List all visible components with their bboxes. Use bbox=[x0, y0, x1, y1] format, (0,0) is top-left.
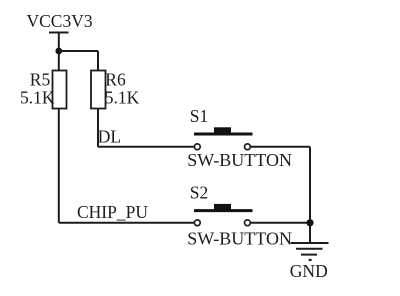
wire R6 bottom down to DL rail bbox=[97, 109, 99, 147]
svg-text:R5: R5 bbox=[30, 69, 51, 89]
wire S2 right terminal to junction bbox=[250, 222, 310, 224]
wire CHIP_PU horizontal to S2 bbox=[59, 222, 195, 224]
ground symbol bar 3 bbox=[301, 254, 317, 256]
wire R5 bottom down to CHIP_PU rail bbox=[58, 109, 60, 223]
svg-text:VCC3V3: VCC3V3 bbox=[27, 11, 93, 31]
svg-text:5.1K: 5.1K bbox=[20, 87, 55, 107]
svg-text:GND: GND bbox=[290, 261, 328, 281]
resistor R6 body bbox=[91, 71, 106, 109]
wire S1 right terminal to right rail bbox=[250, 146, 310, 148]
switch S2 right terminal pin bbox=[245, 220, 251, 226]
svg-text:SW-BUTTON: SW-BUTTON bbox=[187, 228, 292, 248]
ground symbol bar 4 bbox=[309, 259, 312, 261]
svg-text:S2: S2 bbox=[190, 183, 208, 203]
resistor R5 body bbox=[53, 71, 67, 109]
switch S1 actuator bar bbox=[194, 133, 253, 136]
switch S2 button bump bbox=[214, 204, 231, 211]
svg-text:SW-BUTTON: SW-BUTTON bbox=[187, 150, 292, 170]
svg-text:CHIP_PU: CHIP_PU bbox=[77, 202, 148, 222]
junction dot at VCC split bbox=[55, 48, 62, 55]
ground symbol bar 2 bbox=[296, 248, 323, 250]
wire down into R6 top bbox=[97, 51, 99, 71]
switch S2 left terminal pin bbox=[194, 220, 200, 226]
ground symbol bar 1 bbox=[291, 242, 329, 244]
wire junction to R6 branch horizontal bbox=[59, 50, 98, 52]
switch S2 actuator bar bbox=[194, 209, 253, 212]
switch S1 right terminal pin bbox=[245, 144, 251, 150]
switch S1 left terminal pin bbox=[194, 144, 200, 150]
svg-text:DL: DL bbox=[98, 126, 121, 146]
svg-text:R6: R6 bbox=[105, 69, 126, 89]
switch S1 button bump bbox=[214, 127, 231, 134]
wire DL horizontal to S1 bbox=[98, 146, 195, 148]
svg-text:S1: S1 bbox=[190, 106, 208, 126]
svg-text:5.1K: 5.1K bbox=[105, 87, 140, 107]
junction dot at GND rail bbox=[306, 219, 313, 226]
wire VCC stem down to R5 bbox=[58, 33, 60, 71]
wire right rail down to ground bbox=[309, 147, 311, 243]
power symbol VCC3V3 bar bbox=[49, 32, 69, 34]
